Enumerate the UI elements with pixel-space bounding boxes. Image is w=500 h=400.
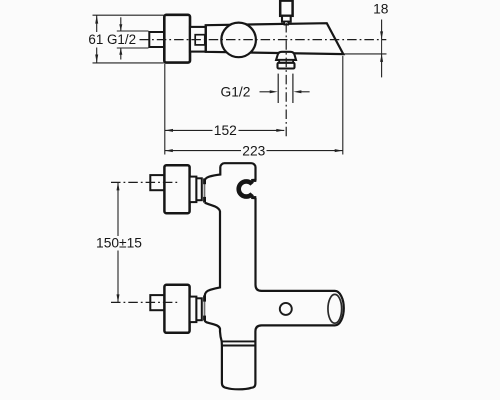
centerline bottom inlet: [111, 301, 178, 303]
bottom inlet: escutcheon: [164, 285, 189, 333]
union nut (upper view): [190, 27, 206, 52]
svg-text:223: 223: [242, 143, 265, 158]
bottom inlet: nut: [190, 297, 197, 323]
top inlet: nut: [190, 177, 197, 203]
diverter knob: [280, 1, 292, 16]
lower outlet nut G1/2: [278, 63, 295, 69]
dim G1/2 lower: arrows: [260, 91, 274, 93]
escutcheon (upper view): [164, 15, 190, 63]
dim 150±15: [117, 182, 119, 236]
spout tube bore ellipse: [328, 294, 342, 323]
knob stem: [284, 22, 288, 25]
top inlet: nut lip: [196, 178, 201, 200]
left extension line (152/223): [164, 64, 166, 155]
dim 61: dimension line + arrows: [96, 15, 98, 32]
hook bottom bar: [251, 196, 256, 199]
top inlet: stub: [150, 175, 164, 190]
dim 18: arrows: [381, 20, 383, 40]
dim 18: extension line bottom: [344, 53, 387, 55]
svg-text:G1/2: G1/2: [221, 85, 251, 100]
junction gray line bottom inlet: [204, 296, 206, 320]
hole on arm: [280, 303, 292, 315]
hand-shower hook (C shape ring): [239, 181, 254, 196]
right extension line from spout tip (223): [342, 56, 344, 155]
body band (mixer body with spout): [206, 23, 344, 54]
lower outlet dome: [276, 52, 296, 60]
knob step: [282, 16, 291, 22]
dim 223: [165, 150, 241, 152]
junction gray line top inlet: [204, 182, 206, 203]
dim G1/2 inner: arrows outside: [120, 17, 122, 31]
dim 61: extension lines: [93, 14, 164, 16]
top inlet: escutcheon: [164, 165, 189, 213]
body silhouette fill: [205, 163, 344, 389]
svg-text:18: 18: [373, 2, 389, 17]
dim 152: [165, 129, 213, 131]
junction line nut/body: [205, 25, 207, 52]
svg-text:150±15: 150±15: [96, 236, 142, 251]
bottom inlet: stub: [150, 295, 164, 310]
svg-text:152: 152: [214, 123, 237, 138]
bottom inlet: nut lip: [196, 298, 201, 320]
cartridge dome circle: [221, 23, 256, 58]
dim G1/2 inner: extension lines: [117, 30, 149, 32]
dim G1/2 lower: extension lines: [277, 74, 279, 103]
outline: right edge, arm, outlet, bottom, left taper: [205, 198, 344, 390]
wall inlet stub G1/2 (upper view): [149, 32, 164, 47]
lower outlet band: [279, 60, 293, 63]
outlet seam lines: [222, 340, 256, 342]
label 61 G1/2: [87, 33, 137, 46]
outline: left edge between inlets: [205, 203, 220, 296]
outline: top-left + top edge + right edge to hook: [205, 163, 256, 181]
horizontal centerline (upper view): [140, 39, 387, 41]
hook top bar: [251, 179, 256, 182]
svg-text:61 G1/2: 61 G1/2: [88, 32, 136, 47]
centerline top inlet: [111, 181, 178, 183]
nut inner thread detail: [195, 35, 205, 45]
hook opening (erase wedge): [246, 179, 258, 200]
vertical centerline (upper view): [285, 23, 287, 137]
